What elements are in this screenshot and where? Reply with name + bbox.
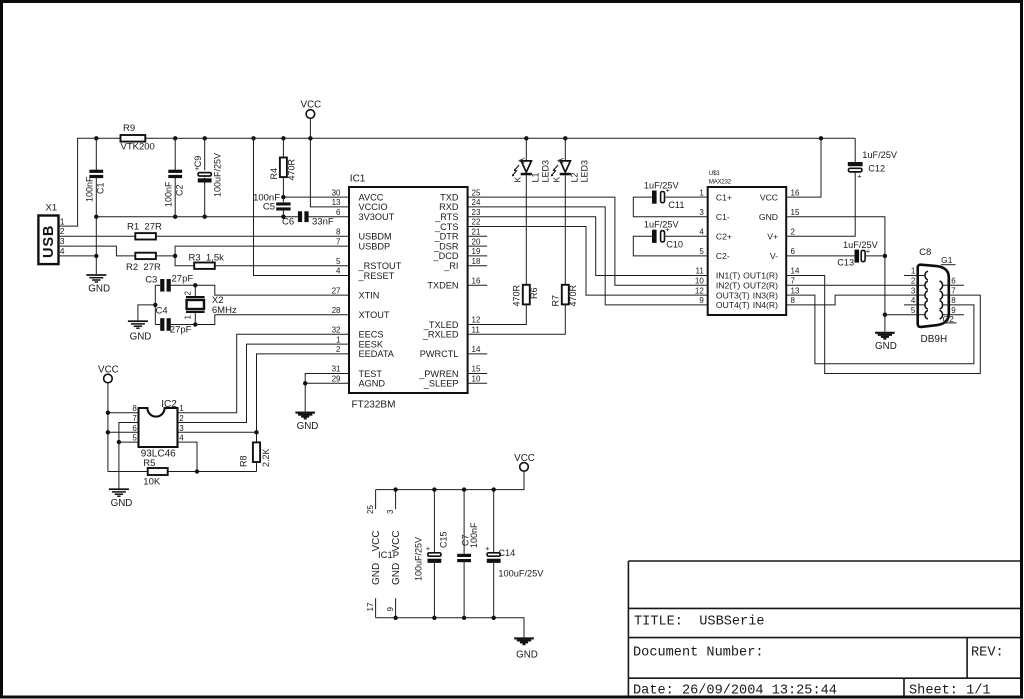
svg-text:3: 3 [60, 236, 65, 246]
wire R5 row [108, 471, 148, 473]
svg-text:4: 4 [179, 434, 184, 443]
capacitor C3 [155, 284, 160, 286]
svg-text:10K: 10K [143, 477, 161, 488]
svg-text:4: 4 [336, 267, 341, 276]
svg-text:14: 14 [791, 267, 800, 276]
wire D+ jog [59, 246, 136, 256]
svg-text:+: + [426, 544, 431, 553]
capacitor C10 [666, 235, 708, 237]
wire EEDATA [257, 354, 350, 443]
svg-text:1uF/25V: 1uF/25V [862, 150, 898, 160]
svg-text:6MHz: 6MHz [212, 305, 237, 316]
ground power block [514, 637, 534, 639]
svg-text:27: 27 [332, 286, 341, 295]
svg-text:DB9H: DB9H [921, 334, 948, 345]
svg-text:7: 7 [791, 277, 796, 286]
power pin 9 stub [395, 598, 397, 618]
svg-text:X1: X1 [46, 203, 58, 214]
svg-text:1uF/25V: 1uF/25V [843, 240, 879, 250]
wire C3-C4 left vertical [154, 285, 156, 324]
svg-text:1uF/25V: 1uF/25V [644, 220, 680, 230]
svg-text:GND: GND [391, 563, 402, 585]
junction gnd-C13 [883, 254, 887, 258]
svg-text:L1: L1 [531, 172, 541, 182]
svg-text:AGND: AGND [359, 379, 386, 389]
junction D+/R3 [173, 254, 177, 258]
svg-text:VCC: VCC [391, 530, 402, 551]
junction gndrow-C9 [203, 215, 207, 219]
svg-text:7: 7 [132, 414, 137, 423]
junction gnd-DB9pin5 [883, 313, 887, 317]
svg-text:2: 2 [179, 414, 184, 423]
DB9 pin3 lead [918, 294, 925, 296]
wire IC2 pin8 [108, 412, 139, 414]
svg-text:1uF/25V: 1uF/25V [644, 181, 680, 191]
wire MAX OUT2R to DB9 pin2 [786, 284, 917, 286]
svg-text:30: 30 [332, 188, 341, 197]
capacitor C11 [666, 196, 708, 198]
junction pin5-gnd [117, 440, 121, 444]
connector C8 DB9H outline [918, 265, 949, 327]
wire IC2 pin3 [178, 431, 257, 433]
svg-text:100uF/25V: 100uF/25V [414, 537, 424, 581]
junction prail-C15 [432, 487, 436, 491]
svg-text:GND: GND [875, 341, 897, 352]
junction prail-C14 [492, 487, 496, 491]
wire VCC to IC2 pins 8 and 6 [107, 383, 109, 472]
capacitor C9 [204, 138, 206, 170]
junction TEST-AGND [303, 381, 307, 385]
svg-text:2: 2 [60, 226, 65, 236]
capacitor C13 [786, 255, 855, 257]
wire GND bus row [96, 216, 298, 218]
wire XTOUT jog [195, 315, 349, 325]
svg-text:VCC: VCC [514, 453, 535, 464]
svg-text:IN2(T): IN2(T) [716, 281, 740, 291]
junction grail-C14 [492, 616, 496, 620]
resistor R9 [121, 135, 146, 142]
junction xtal-gnd [153, 303, 157, 307]
junction EEDATA-IC2pin3 [254, 430, 258, 434]
svg-text:6: 6 [336, 208, 341, 217]
svg-text:USBDM: USBDM [359, 232, 392, 242]
svg-text:R1 27R: R1 27R [127, 222, 162, 233]
svg-text:_RXLED: _RXLED [422, 330, 459, 340]
svg-text:MAX232: MAX232 [709, 179, 732, 186]
svg-text:Date: 26/09/2004 13:25:44: Date: 26/09/2004 13:25:44 [633, 684, 837, 699]
svg-text:4: 4 [699, 228, 704, 237]
svg-text:2: 2 [336, 345, 341, 354]
resistor R6 [523, 285, 530, 305]
svg-text:_DCD: _DCD [432, 251, 458, 261]
svg-text:GND: GND [130, 332, 152, 343]
svg-text:4: 4 [911, 296, 916, 305]
svg-text:9: 9 [699, 296, 704, 305]
svg-text:C11: C11 [668, 200, 684, 210]
junction vcc-pin8 [106, 411, 110, 415]
junction rail-R4 [281, 136, 285, 140]
svg-text:R7: R7 [551, 295, 561, 307]
svg-text:_RESET: _RESET [358, 271, 395, 281]
junction R5-pin4 [195, 469, 199, 473]
capacitor C1 [95, 138, 97, 170]
svg-text:GND: GND [297, 421, 319, 432]
svg-text:8: 8 [791, 296, 796, 305]
svg-text:TEST: TEST [359, 369, 383, 379]
wire XTIN jog [195, 285, 349, 295]
svg-text:OUT2(R): OUT2(R) [743, 281, 778, 291]
svg-text:8: 8 [336, 228, 341, 237]
svg-text:REV:: REV: [971, 646, 1004, 661]
svg-text:3: 3 [179, 424, 184, 433]
svg-text:C4: C4 [156, 305, 168, 316]
wire VCC to power rail [376, 471, 524, 489]
DB9 pin7 lead [942, 294, 949, 296]
svg-text:_DTR: _DTR [434, 232, 459, 242]
svg-text:FT232BM: FT232BM [352, 400, 396, 411]
wire C1 GND drop [95, 217, 97, 275]
svg-text:24: 24 [472, 198, 481, 207]
svg-text:19: 19 [472, 247, 481, 256]
power VCC bottom [520, 463, 529, 472]
ground MAX232 [875, 332, 895, 334]
wire TEST to AGND [305, 374, 349, 384]
svg-text:16: 16 [791, 188, 800, 197]
wire DB9 pin5 to ground [885, 314, 918, 316]
wire IC2 pin5 [119, 441, 139, 443]
svg-text:18: 18 [472, 257, 481, 266]
svg-text:XTIN: XTIN [359, 290, 380, 300]
svg-text:GND: GND [88, 283, 110, 294]
resistor R2 [135, 253, 156, 259]
wire R6 to TXLED [468, 304, 527, 324]
connector X1 body [38, 216, 58, 265]
svg-text:25: 25 [472, 188, 481, 197]
wire D+ to USBDP [156, 255, 175, 257]
svg-text:12: 12 [695, 286, 704, 295]
svg-text:GND: GND [759, 212, 778, 222]
junction gnd-usb4 [94, 254, 98, 258]
DB9 pin1 stub [904, 275, 925, 277]
svg-text:R5: R5 [143, 458, 155, 469]
svg-text:33nF: 33nF [312, 217, 334, 228]
title block outline [628, 561, 1021, 697]
svg-text:Document Number:: Document Number: [633, 646, 764, 661]
svg-text:470R: 470R [512, 284, 522, 306]
svg-text:2: 2 [791, 228, 796, 237]
power VCC top [306, 110, 315, 119]
svg-text:3: 3 [386, 509, 395, 514]
wire VCC stub to rail and VCCIO [310, 118, 349, 207]
svg-text:C8: C8 [919, 247, 931, 258]
junction C4-XTAL [193, 322, 197, 326]
svg-text:5: 5 [699, 247, 704, 256]
svg-text:IC1: IC1 [350, 174, 366, 185]
svg-text:100uF/25V: 100uF/25V [498, 569, 544, 579]
svg-text:10: 10 [472, 375, 481, 384]
svg-text:TITLE: USBSerie: TITLE: USBSerie [634, 615, 765, 630]
svg-text:23: 23 [472, 208, 481, 217]
wire RTS to MAX T1IN [468, 217, 708, 276]
svg-text:28: 28 [332, 306, 341, 315]
junction grail-C15 [432, 616, 436, 620]
svg-text:IN4(R): IN4(R) [753, 300, 778, 310]
DB9 pin2 lead [918, 284, 925, 286]
svg-text:_PWREN: _PWREN [418, 369, 458, 379]
svg-text:C9: C9 [193, 156, 203, 168]
svg-text:13: 13 [791, 286, 800, 295]
svg-text:VCC: VCC [371, 530, 382, 551]
svg-text:20: 20 [472, 237, 481, 246]
svg-text:27pF: 27pF [170, 324, 192, 335]
svg-text:OUT3(T): OUT3(T) [716, 290, 750, 300]
svg-text:31: 31 [332, 365, 341, 374]
svg-text:1: 1 [699, 188, 704, 197]
svg-text:C1: C1 [96, 182, 106, 194]
LED L2 [564, 138, 566, 160]
junction prail-C7 [462, 487, 466, 491]
capacitor C6 [298, 211, 302, 222]
wire MAX GND to ground [786, 217, 885, 332]
svg-text:IC1P: IC1P [378, 550, 399, 561]
svg-text:R3 1,5k: R3 1,5k [189, 252, 225, 263]
svg-text:R6: R6 [529, 287, 539, 299]
svg-text:11: 11 [695, 267, 704, 276]
svg-text:RXD: RXD [439, 202, 459, 212]
wire MAX IN4R to DB9 pin3 [786, 295, 917, 305]
DB9 pin9 stub [942, 314, 964, 316]
svg-text:C15: C15 [439, 531, 449, 548]
wire R5 to node [168, 471, 257, 473]
resistor R3 [194, 263, 215, 269]
svg-text:R4: R4 [269, 168, 279, 180]
capacitor C12 [854, 138, 856, 162]
capacitor C5 [282, 197, 284, 202]
svg-text:3: 3 [699, 208, 704, 217]
svg-text:_RI: _RI [443, 261, 458, 271]
svg-text:5: 5 [911, 306, 916, 315]
DB9 left contact bumps [925, 271, 928, 280]
LED L1 [525, 138, 527, 160]
svg-text:Sheet: 1/1: Sheet: 1/1 [909, 684, 991, 699]
svg-text:14: 14 [472, 345, 481, 354]
ground crystal [128, 320, 148, 322]
svg-text:1: 1 [911, 267, 916, 276]
svg-text:C14: C14 [498, 548, 515, 558]
svg-text:5: 5 [132, 434, 137, 443]
wire ground power rail [376, 618, 524, 638]
wire AVCC node [283, 196, 349, 198]
ground AGND [295, 412, 315, 414]
junction grail-pin9 [393, 616, 397, 620]
junction C3-XTAL [193, 283, 197, 287]
svg-text:C12: C12 [868, 164, 885, 174]
svg-text:3V3OUT: 3V3OUT [359, 212, 395, 222]
resistor R1 [135, 233, 156, 239]
svg-text:IN1(T): IN1(T) [716, 271, 740, 281]
junction R4-C5 [281, 195, 285, 199]
svg-text:1: 1 [184, 315, 193, 320]
svg-text:6: 6 [132, 424, 137, 433]
DB9 pin4 stub [904, 304, 925, 306]
svg-text:100uF/25V: 100uF/25V [213, 153, 223, 197]
junction rail-C2 [173, 136, 177, 140]
svg-text:VTK200: VTK200 [121, 142, 155, 153]
wire crystal ground stub [138, 305, 155, 321]
EEPROM IC2 93LC46 body [139, 408, 178, 447]
wire RXD to MAX R2OUT [468, 207, 708, 305]
svg-text:C1+: C1+ [716, 192, 732, 202]
svg-text:15: 15 [472, 365, 481, 374]
power pin 3 stub [395, 490, 397, 510]
svg-text:C2+: C2+ [716, 232, 732, 242]
svg-text:7: 7 [951, 286, 956, 295]
junction grail-C7 [462, 616, 466, 620]
svg-text:TXD: TXD [440, 192, 459, 202]
svg-text:GND: GND [111, 498, 133, 509]
svg-text:V-: V- [770, 251, 778, 261]
svg-text:10: 10 [695, 277, 704, 286]
svg-text:V+: V+ [767, 232, 778, 242]
svg-text:AVCC: AVCC [359, 192, 384, 202]
svg-text:+: + [485, 544, 490, 553]
resistor R7 [562, 285, 569, 305]
svg-text:25: 25 [366, 505, 375, 514]
junction rail-C9 [203, 136, 207, 140]
svg-text:C6: C6 [282, 217, 294, 228]
junction gndrow-C5 [281, 215, 285, 219]
svg-text:GND: GND [371, 563, 382, 585]
wire EESK [178, 344, 350, 422]
svg-text:+: + [857, 172, 862, 181]
wire USB pin1 to VCC rail [59, 138, 97, 226]
svg-text:6: 6 [951, 277, 956, 286]
svg-text:PWRCTL: PWRCTL [420, 349, 459, 359]
resistor R5 [148, 468, 168, 475]
DB9 right contact bumps [940, 281, 943, 290]
svg-text:EEDATA: EEDATA [359, 349, 395, 359]
svg-text:_SLEEP: _SLEEP [423, 379, 459, 389]
wire R3 branch [175, 256, 194, 266]
svg-text:IC2: IC2 [161, 399, 177, 410]
svg-text:8: 8 [132, 404, 137, 413]
junction rail-MAX232 VCC [819, 136, 823, 140]
svg-text:13: 13 [332, 198, 341, 207]
svg-text:_DSR: _DSR [433, 241, 459, 251]
ground USB [86, 274, 106, 276]
wire R3 to RSTOUT [215, 265, 349, 267]
wire USB pin4 stub [59, 255, 97, 257]
svg-text:R9: R9 [123, 123, 135, 134]
ground IC2 [109, 488, 129, 490]
svg-text:USBDP: USBDP [359, 241, 391, 251]
svg-text:9: 9 [386, 607, 395, 612]
svg-text:2: 2 [184, 291, 193, 296]
svg-text:LED3: LED3 [541, 160, 551, 183]
svg-text:21: 21 [472, 228, 481, 237]
svg-text:22: 22 [472, 218, 481, 227]
svg-text:16: 16 [472, 277, 481, 286]
svg-text:IN3(R): IN3(R) [753, 290, 778, 300]
wire D- with R1 [59, 235, 136, 237]
svg-text:C5: C5 [263, 202, 275, 213]
svg-text:OUT4(T): OUT4(T) [716, 300, 750, 310]
svg-text:R8: R8 [239, 455, 249, 467]
svg-text:6: 6 [791, 247, 796, 256]
svg-text:EESK: EESK [359, 339, 384, 349]
svg-text:100nF: 100nF [469, 522, 479, 548]
DB9 pin5 lead [918, 314, 925, 316]
svg-text:A: A [517, 158, 527, 164]
svg-text:100nF: 100nF [164, 181, 174, 207]
svg-text:LED3: LED3 [580, 160, 590, 183]
wire CTS to MAX R1OUT [468, 227, 708, 296]
crystal X2 [194, 285, 196, 296]
svg-text:USB: USB [41, 225, 57, 258]
resistor R8 [256, 441, 258, 443]
junction rail-reset [251, 136, 255, 140]
svg-text:C3: C3 [145, 275, 157, 286]
junction prail-pin3 [393, 487, 397, 491]
svg-text:12: 12 [472, 316, 481, 325]
resistor R4 [282, 138, 284, 157]
wire MAX VCC pin to rail [786, 138, 821, 197]
svg-text:XTOUT: XTOUT [359, 310, 390, 320]
svg-text:8: 8 [951, 296, 956, 305]
wire TXD to MAX T2IN [468, 197, 708, 285]
svg-text:R2 27R: R2 27R [126, 262, 161, 273]
DB9 pin8 lead [942, 304, 949, 306]
svg-text:VCC: VCC [301, 100, 322, 111]
capacitor C14 [493, 490, 495, 553]
junction rail-LED1 [524, 136, 528, 140]
svg-text:L2: L2 [570, 172, 580, 182]
wire MAX IN3R to DB9 pin8 loop [786, 295, 974, 364]
svg-text:1: 1 [179, 404, 184, 413]
junction gndrow-C2 [173, 215, 177, 219]
svg-text:K: K [551, 177, 561, 183]
wire VCC to RESET [254, 138, 350, 275]
junction gndrow-C1 [94, 215, 98, 219]
svg-text:C2: C2 [175, 184, 185, 196]
wire IC2 pin7 to ground [119, 423, 139, 489]
svg-text:470R: 470R [287, 158, 297, 180]
capacitor C15 [433, 490, 435, 553]
power VCC IC2 [104, 374, 113, 383]
svg-text:5: 5 [336, 257, 341, 266]
svg-text:_TXLED: _TXLED [423, 320, 459, 330]
op-amp U2 MAX232 body [708, 187, 787, 315]
svg-text:32: 32 [332, 326, 341, 335]
junction vcc-pin6 [106, 430, 110, 434]
svg-text:TXDEN: TXDEN [427, 281, 458, 291]
capacitor C4 [155, 324, 160, 326]
DB9 pin6 stub [942, 284, 964, 286]
svg-text:_RTS: _RTS [434, 212, 458, 222]
IC1 unconnected right stubs [468, 235, 488, 237]
svg-text:U$3: U$3 [709, 170, 720, 177]
svg-text:7: 7 [336, 237, 341, 246]
power pin 25 stub [375, 490, 377, 510]
svg-text:470R: 470R [568, 284, 578, 306]
svg-text:GND: GND [516, 650, 538, 661]
svg-text:VCC: VCC [98, 365, 119, 376]
svg-text:C1-: C1- [716, 212, 730, 222]
svg-text:VCCIO: VCCIO [359, 202, 388, 212]
svg-text:100nF: 100nF [85, 176, 95, 202]
junction rail-VCC stub [308, 136, 312, 140]
svg-text:A: A [556, 158, 566, 164]
